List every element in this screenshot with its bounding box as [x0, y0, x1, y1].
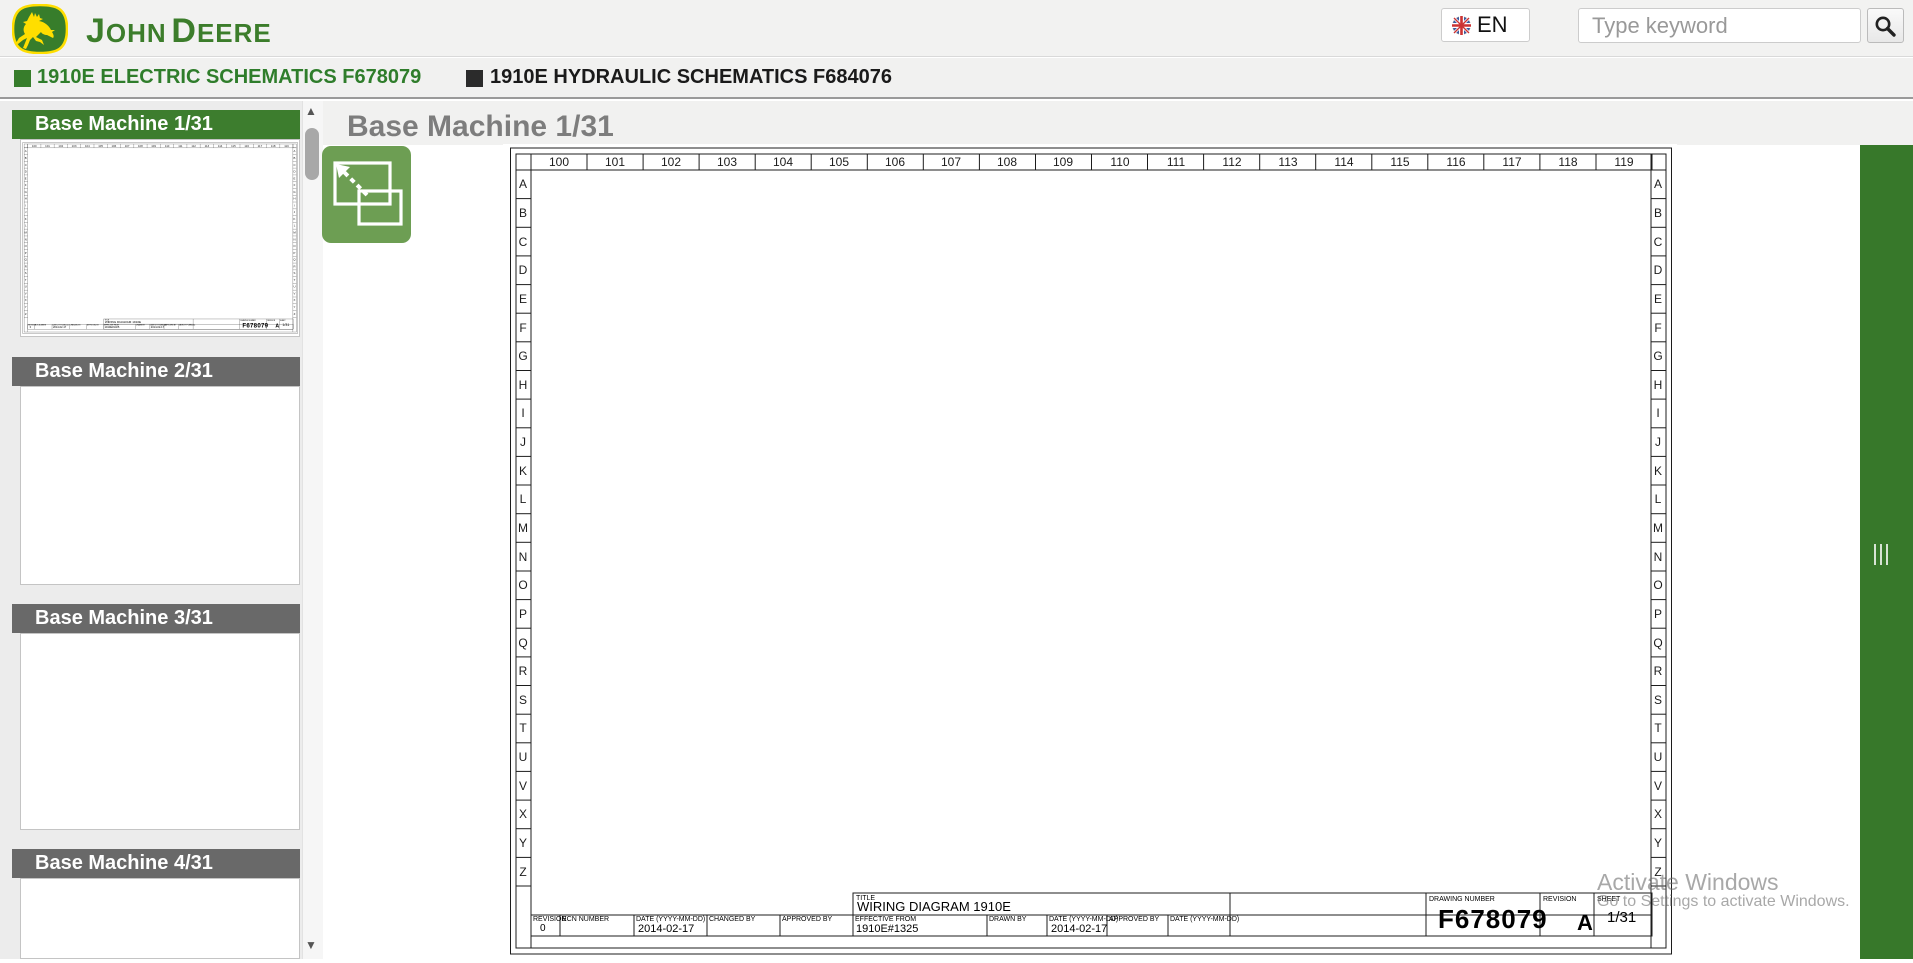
svg-text:APPROVED BY: APPROVED BY [1109, 916, 1160, 923]
svg-text:APPROVED BY: APPROVED BY [782, 916, 833, 923]
svg-text:V: V [519, 779, 527, 793]
svg-text:A: A [519, 177, 527, 191]
svg-text:F: F [519, 321, 526, 335]
svg-text:116: 116 [1446, 155, 1465, 169]
svg-text:U: U [519, 750, 528, 764]
svg-text:Q: Q [518, 636, 527, 650]
John Deere logo [12, 4, 68, 54]
svg-text:V: V [1654, 779, 1662, 793]
svg-text:J: J [1655, 435, 1661, 449]
svg-text:H: H [1654, 378, 1663, 392]
svg-text:Y: Y [519, 836, 527, 850]
expand button [322, 146, 411, 243]
svg-text:E: E [519, 292, 527, 306]
svg-text:D: D [1654, 263, 1663, 277]
svg-text:U: U [1654, 750, 1663, 764]
svg-text:J: J [520, 435, 526, 449]
svg-text:111: 111 [1167, 155, 1186, 169]
search [1578, 8, 1861, 43]
svg-text:110: 110 [1110, 155, 1129, 169]
svg-text:DATE (YYYY-MM-DD): DATE (YYYY-MM-DD) [636, 916, 705, 923]
svg-text:N: N [1654, 550, 1663, 564]
svg-text:Z: Z [519, 865, 526, 879]
title block [531, 893, 1652, 936]
svg-text:102: 102 [661, 155, 681, 169]
svg-text:103: 103 [717, 155, 737, 169]
svg-text:REVISION: REVISION [1543, 896, 1576, 903]
watermark [1597, 869, 1779, 896]
svg-text:CHANGED BY: CHANGED BY [709, 916, 756, 923]
svg-text:112: 112 [1222, 155, 1241, 169]
svg-text:B: B [1654, 206, 1662, 220]
svg-text:107: 107 [941, 155, 961, 169]
svg-text:G: G [1653, 349, 1662, 363]
svg-text:A: A [1654, 177, 1662, 191]
svg-text:1/31: 1/31 [1607, 909, 1636, 926]
svg-text:WIRING DIAGRAM 1910E: WIRING DIAGRAM 1910E [857, 899, 1011, 914]
svg-text:H: H [519, 378, 528, 392]
svg-text:X: X [1654, 807, 1662, 821]
svg-text:2014-02-17: 2014-02-17 [1051, 923, 1107, 935]
svg-text:E: E [1654, 292, 1662, 306]
svg-text:R: R [1654, 664, 1663, 678]
tabs [14, 70, 31, 87]
sidebar items [12, 110, 300, 139]
sidebar scrollbar [302, 101, 323, 959]
svg-text:115: 115 [1390, 155, 1409, 169]
svg-text:T: T [1654, 721, 1662, 735]
svg-text:DRAWING NUMBER: DRAWING NUMBER [1429, 896, 1495, 903]
svg-text:DATE (YYYY-MM-DD): DATE (YYYY-MM-DD) [1170, 916, 1239, 923]
svg-text:DRAWN BY: DRAWN BY [989, 916, 1027, 923]
svg-text:G: G [518, 349, 527, 363]
svg-text:119: 119 [1614, 155, 1633, 169]
svg-text:N: N [519, 550, 528, 564]
svg-text:105: 105 [829, 155, 849, 169]
svg-text:Y: Y [1654, 836, 1662, 850]
right green strip [1860, 145, 1913, 959]
svg-text:C: C [1654, 235, 1663, 249]
svg-text:Q: Q [1653, 636, 1662, 650]
svg-text:117: 117 [1502, 155, 1521, 169]
svg-text:ECN NUMBER: ECN NUMBER [562, 916, 609, 923]
svg-text:114: 114 [1334, 155, 1353, 169]
svg-text:M: M [518, 521, 528, 535]
svg-text:F678079: F678079 [1438, 904, 1548, 934]
svg-text:1910E#1325: 1910E#1325 [856, 923, 918, 935]
border frame [511, 148, 1672, 954]
svg-text:O: O [518, 578, 527, 592]
svg-text:S: S [1654, 693, 1662, 707]
svg-text:108: 108 [997, 155, 1017, 169]
svg-text:0: 0 [540, 923, 546, 934]
svg-text:C: C [519, 235, 528, 249]
svg-text:118: 118 [1558, 155, 1577, 169]
svg-text:101: 101 [605, 155, 625, 169]
svg-text:P: P [519, 607, 527, 621]
svg-text:R: R [519, 664, 528, 678]
svg-text:X: X [519, 807, 527, 821]
svg-text:L: L [1655, 492, 1662, 506]
svg-text:K: K [1654, 464, 1662, 478]
svg-text:P: P [1654, 607, 1662, 621]
svg-text:T: T [519, 721, 527, 735]
svg-text:D: D [519, 263, 528, 277]
svg-text:100: 100 [549, 155, 569, 169]
svg-text:106: 106 [885, 155, 905, 169]
svg-text:A: A [1577, 910, 1593, 935]
svg-text:O: O [1653, 578, 1662, 592]
svg-text:DATE (YYYY-MM-DD): DATE (YYYY-MM-DD) [1049, 916, 1118, 923]
svg-text:2014-02-17: 2014-02-17 [638, 923, 694, 935]
svg-text:K: K [519, 464, 527, 478]
svg-text:L: L [520, 492, 527, 506]
svg-text:I: I [521, 406, 524, 420]
svg-text:I: I [1656, 406, 1659, 420]
svg-text:F: F [1654, 321, 1661, 335]
EN language button [1441, 8, 1530, 42]
svg-text:S: S [519, 693, 527, 707]
svg-text:EFFECTIVE FROM: EFFECTIVE FROM [855, 916, 916, 923]
svg-text:109: 109 [1053, 155, 1073, 169]
svg-text:B: B [519, 206, 527, 220]
svg-text:113: 113 [1278, 155, 1297, 169]
svg-text:M: M [1653, 521, 1663, 535]
svg-text:104: 104 [773, 155, 793, 169]
main title [347, 110, 614, 144]
